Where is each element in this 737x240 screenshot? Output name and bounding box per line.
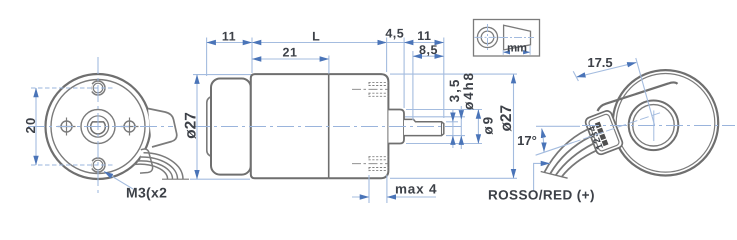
shaft boss — [388, 110, 404, 144]
rear hole inner — [633, 105, 674, 146]
M3 leader arrow — [104, 172, 133, 190]
symbol cone — [504, 25, 531, 50]
ext line shaft end — [443, 38, 445, 119]
leader to red wire — [534, 163, 550, 190]
wire 1 — [144, 153, 184, 179]
left dimension o27 — [190, 75, 251, 180]
svg-text:max 4: max 4 — [395, 181, 437, 196]
symbol circles — [477, 27, 497, 47]
svg-text:17°: 17° — [517, 133, 537, 148]
left pilot hole with cross — [61, 121, 72, 132]
svg-text:11: 11 — [417, 29, 431, 43]
mm dimension arrows — [503, 51, 507, 53]
svg-text:8,5: 8,5 — [419, 43, 438, 57]
wire 4 — [134, 164, 168, 179]
rear horizontal centerline — [582, 125, 735, 127]
dimension o9 — [477, 110, 479, 144]
svg-text:M3(x2: M3(x2 — [126, 185, 167, 201]
svg-text:L: L — [312, 29, 320, 43]
right shaft dimensions — [390, 74, 517, 178]
ext line gearbox top right — [390, 73, 517, 75]
motor can body — [251, 74, 329, 178]
bottom hole thread gap — [91, 161, 92, 169]
dimension 8,5 — [413, 55, 444, 57]
ext line body top — [193, 74, 251, 76]
angle 17 deg arc — [542, 129, 544, 152]
svg-text:ø27: ø27 — [498, 105, 515, 132]
can/gearbox boundary — [328, 74, 330, 178]
svg-text:ROSSO/RED (+): ROSSO/RED (+) — [488, 188, 595, 203]
ext line cap/body boundary — [251, 38, 253, 74]
output shaft with flat — [404, 119, 444, 135]
17.5 extension to hole center — [636, 58, 655, 125]
ext line shaft bottom — [446, 135, 465, 137]
wire 2 — [140, 157, 178, 179]
ext line gearbox right face — [386, 38, 388, 73]
bottom screw hidden lines — [369, 156, 389, 171]
dimension 20 line — [35, 88, 37, 165]
dimension o27 right — [513, 74, 515, 178]
bottom hole crosshair / extension for dim 20 — [31, 164, 115, 166]
ext line screw inner end — [368, 175, 370, 203]
svg-text:ø4h8: ø4h8 — [461, 71, 476, 110]
bottom screw axis — [352, 163, 388, 165]
ext line shaft flat — [446, 121, 458, 123]
ext line can/gearbox boundary — [328, 56, 330, 74]
angle 17 deg tilted reference line (connector axis) — [536, 143, 572, 155]
wire bundle end cut line — [541, 172, 568, 179]
shaft chamfer line — [441, 122, 443, 136]
pins — [595, 122, 602, 129]
ext line brush cap left — [206, 38, 208, 77]
motor face inner circle — [51, 80, 145, 174]
dimension 21 — [252, 58, 329, 60]
front view horizontal centerline — [28, 126, 173, 128]
dimension 4,5 (outside arrows) — [372, 42, 387, 44]
svg-text:11: 11 — [222, 29, 236, 43]
rear connector axis centerline (dashed part) — [570, 113, 660, 144]
motor face outer circle — [46, 74, 151, 179]
svg-text:4,5: 4,5 — [385, 26, 404, 40]
svg-text:20: 20 — [23, 116, 38, 133]
D-shaped shaft hole — [91, 122, 106, 134]
wire baseline under front view — [162, 178, 189, 180]
svg-text:3,5: 3,5 — [447, 78, 462, 103]
bottom mounting hole M3 — [91, 158, 105, 172]
ext line gearbox face — [386, 175, 388, 203]
rear outer circle — [613, 70, 718, 175]
symbol circle crosshairs — [475, 36, 501, 38]
svg-text:ø9: ø9 — [481, 115, 496, 135]
ext line gearbox bottom right — [390, 177, 517, 179]
top screw hidden lines — [369, 82, 389, 97]
dimension 17.5 — [576, 63, 636, 78]
ext line shaft top — [405, 116, 465, 118]
svg-text:ø27: ø27 — [182, 112, 199, 139]
symbol cone centerline — [500, 37, 534, 39]
ext line boss right face — [403, 38, 405, 109]
svg-text:17.5: 17.5 — [587, 55, 612, 70]
dimension max 4 — [369, 175, 387, 203]
wires rear — [545, 130, 598, 178]
svg-text:21: 21 — [283, 45, 298, 59]
hub ring — [87, 116, 108, 137]
dimension 11 (cap) — [207, 42, 252, 44]
ext line shaft flat start — [412, 51, 414, 120]
rear hole outer — [629, 101, 679, 151]
dimension 11 (shaft) — [404, 42, 444, 44]
dimension L — [252, 42, 387, 44]
top hole thread gap — [91, 84, 92, 92]
motor end cap — [211, 79, 251, 175]
lower wire tab on front view — [140, 149, 153, 173]
ext line boss top — [406, 109, 482, 111]
connector body — [584, 109, 624, 155]
connector tab on front view — [148, 109, 177, 148]
side view centerline — [193, 126, 461, 128]
gearbox body — [329, 74, 389, 178]
wire 3 — [137, 161, 173, 179]
top mounting hole M3 — [91, 81, 105, 95]
ext line body bottom — [190, 178, 250, 180]
brush end cap bump — [207, 97, 223, 157]
dimension o4h8 (outside arrows) — [460, 106, 462, 119]
front view vertical centerline — [97, 57, 99, 197]
right pilot hole with cross — [124, 121, 135, 132]
extension lines, top dims — [207, 38, 444, 121]
ext line boss bottom — [406, 143, 482, 145]
top screw axis — [352, 88, 388, 90]
dimension 3,5 (outside arrows) — [452, 109, 454, 122]
rear hole vertical crosshair — [653, 110, 655, 141]
svg-text:mm: mm — [507, 42, 527, 54]
angle 17 deg horizontal reference line — [536, 125, 580, 127]
rear inner circle — [616, 74, 715, 173]
top hole crosshair / extension for dim 20 — [31, 87, 115, 89]
rear flat chord — [598, 82, 678, 111]
hub circle — [81, 110, 115, 144]
symbol box frame — [474, 20, 540, 57]
